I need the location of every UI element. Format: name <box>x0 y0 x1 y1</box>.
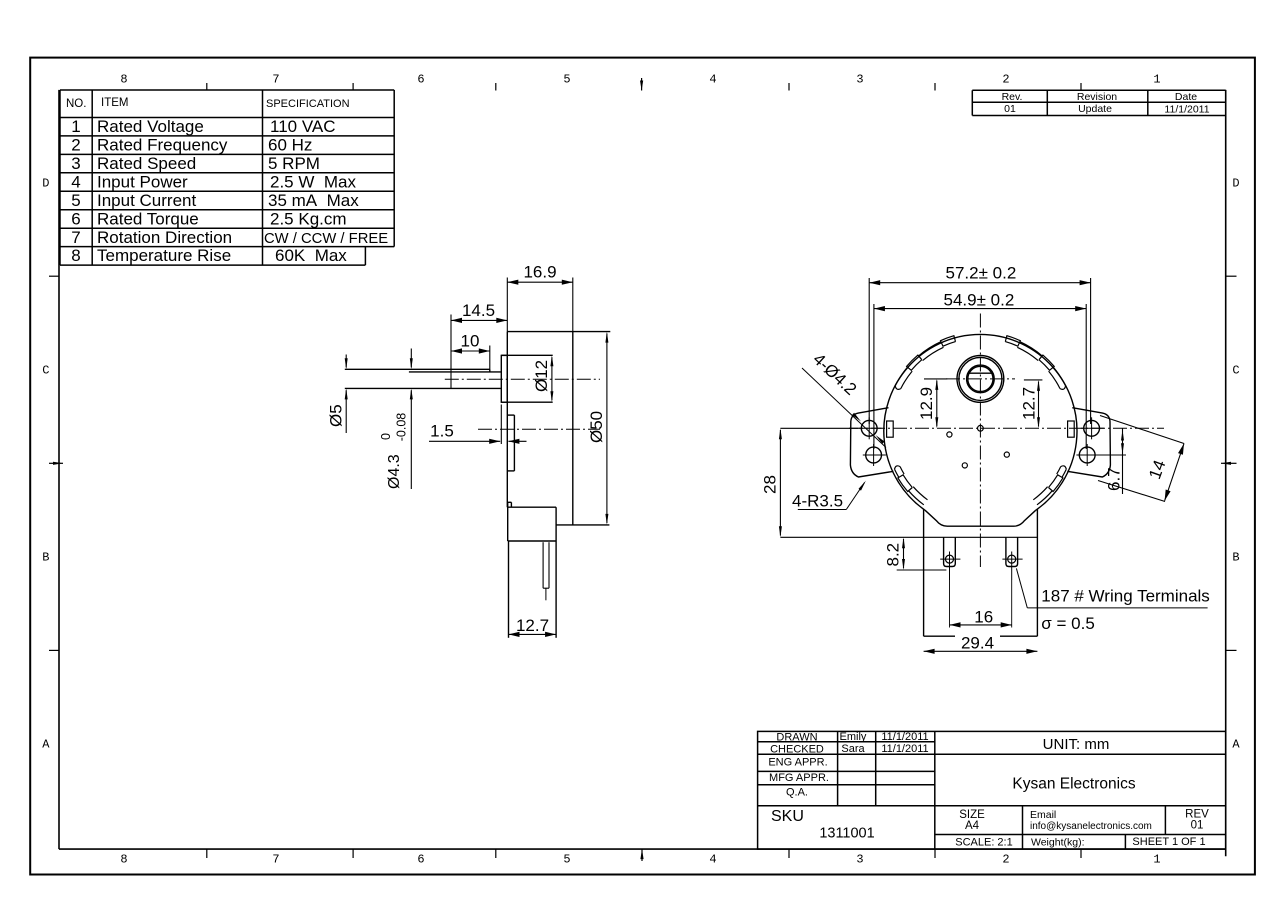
svg-text:Input Current: Input Current <box>97 191 196 210</box>
svg-text:Ø4.3: Ø4.3 <box>386 454 403 489</box>
svg-text:4-Ø4.2: 4-Ø4.2 <box>809 350 860 399</box>
svg-text:NO.: NO. <box>66 98 86 110</box>
svg-text:Revision: Revision <box>1077 91 1117 103</box>
svg-text:Rated Speed: Rated Speed <box>97 154 196 173</box>
svg-text:DRAWN: DRAWN <box>776 732 817 744</box>
svg-text:1: 1 <box>1153 853 1160 867</box>
svg-text:Emily: Emily <box>840 731 867 743</box>
svg-text:ITEM: ITEM <box>101 97 128 109</box>
svg-text:MFG APPR.: MFG APPR. <box>769 772 829 784</box>
svg-text:Rated Torque: Rated Torque <box>97 209 199 228</box>
svg-text:12.7: 12.7 <box>516 616 549 635</box>
svg-text:187 # Wring Terminals: 187 # Wring Terminals <box>1041 587 1210 606</box>
svg-text:Sara: Sara <box>841 743 865 755</box>
svg-text:4: 4 <box>709 73 716 87</box>
svg-text:11/1/2011: 11/1/2011 <box>881 743 928 755</box>
svg-text:7: 7 <box>71 228 80 247</box>
svg-text:1: 1 <box>1153 73 1160 87</box>
svg-text:14: 14 <box>1145 457 1169 481</box>
svg-text:14.5: 14.5 <box>462 301 495 320</box>
svg-text:110 VAC: 110 VAC <box>270 117 336 136</box>
svg-text:Update: Update <box>1078 103 1112 115</box>
svg-text:3: 3 <box>856 853 863 867</box>
svg-text:01: 01 <box>1191 820 1204 832</box>
svg-text:Rated Voltage: Rated Voltage <box>97 117 204 136</box>
svg-text:3: 3 <box>856 73 863 87</box>
svg-text:6: 6 <box>71 209 80 228</box>
svg-text:60 Hz: 60 Hz <box>268 136 312 155</box>
svg-text:11/1/2011: 11/1/2011 <box>881 731 928 743</box>
svg-text:8.2: 8.2 <box>884 543 903 567</box>
svg-text:Kysan Electronics: Kysan Electronics <box>1012 776 1135 793</box>
svg-text:28: 28 <box>761 475 780 494</box>
svg-text:4: 4 <box>71 172 80 191</box>
svg-text:UNIT: mm: UNIT: mm <box>1043 736 1110 753</box>
svg-text:1.5: 1.5 <box>430 422 454 441</box>
svg-text:54.9± 0.2: 54.9± 0.2 <box>944 290 1015 309</box>
svg-text:Input Power: Input Power <box>97 172 188 191</box>
svg-text:57.2± 0.2: 57.2± 0.2 <box>946 263 1017 282</box>
svg-text:5: 5 <box>71 191 80 210</box>
svg-text:60K Max: 60K Max <box>275 246 347 265</box>
svg-text:3: 3 <box>71 154 80 173</box>
svg-text:2: 2 <box>1002 853 1009 867</box>
svg-text:16: 16 <box>974 607 993 626</box>
svg-text:1: 1 <box>71 117 80 136</box>
svg-text:A4: A4 <box>965 820 980 832</box>
svg-text:σ = 0.5: σ = 0.5 <box>1041 614 1095 633</box>
svg-text:SKU: SKU <box>771 808 804 825</box>
svg-text:2: 2 <box>1002 73 1009 87</box>
svg-text:SPECIFICATION: SPECIFICATION <box>266 98 350 110</box>
svg-text:11/1/2011: 11/1/2011 <box>1164 104 1209 116</box>
svg-text:A: A <box>42 738 50 752</box>
svg-text:Ø50: Ø50 <box>587 411 606 443</box>
svg-text:12.7: 12.7 <box>1020 387 1039 420</box>
svg-text:5 RPM: 5 RPM <box>268 154 320 173</box>
svg-text:1311001: 1311001 <box>819 826 874 842</box>
svg-text:D: D <box>42 177 49 191</box>
svg-text:CHECKED: CHECKED <box>770 744 824 756</box>
svg-text:C: C <box>1232 364 1239 378</box>
svg-text:2: 2 <box>71 136 80 155</box>
svg-text:29.4: 29.4 <box>961 634 994 653</box>
svg-text:8: 8 <box>120 73 127 87</box>
svg-text:SHEET 1 OF 1: SHEET 1 OF 1 <box>1132 836 1205 848</box>
svg-text:6: 6 <box>417 73 424 87</box>
svg-text:6: 6 <box>417 853 424 867</box>
svg-text:SCALE: 2:1: SCALE: 2:1 <box>955 837 1012 849</box>
svg-text:C: C <box>42 364 49 378</box>
svg-text:Rated Frequency: Rated Frequency <box>97 136 228 155</box>
svg-text:Email: Email <box>1030 809 1056 821</box>
svg-text:01: 01 <box>1004 103 1016 115</box>
svg-text:Date: Date <box>1175 91 1197 103</box>
svg-text:16.9: 16.9 <box>523 263 556 282</box>
svg-text:2.5 W Max: 2.5 W Max <box>270 172 356 191</box>
svg-text:5: 5 <box>563 73 570 87</box>
svg-text:0: 0 <box>379 433 393 440</box>
svg-text:Rotation Direction: Rotation Direction <box>97 228 232 247</box>
svg-text:B: B <box>1232 551 1239 565</box>
svg-text:B: B <box>42 551 49 565</box>
svg-text:CW / CCW / FREE: CW / CCW / FREE <box>264 231 388 247</box>
svg-text:Weight(kg):: Weight(kg): <box>1031 837 1085 849</box>
svg-text:Rev.: Rev. <box>1002 91 1023 103</box>
svg-text:A: A <box>1232 738 1240 752</box>
svg-text:5: 5 <box>563 853 570 867</box>
svg-text:12.9: 12.9 <box>917 387 936 420</box>
svg-text:10: 10 <box>461 332 480 351</box>
svg-text:7: 7 <box>272 853 279 867</box>
svg-text:D: D <box>1232 177 1239 191</box>
svg-text:8: 8 <box>120 853 127 867</box>
svg-text:Q.A.: Q.A. <box>786 787 808 799</box>
svg-text:8: 8 <box>71 246 80 265</box>
svg-text:info@kysanelectronics.com: info@kysanelectronics.com <box>1030 821 1152 832</box>
svg-text:ENG APPR.: ENG APPR. <box>768 757 827 769</box>
svg-text:4: 4 <box>709 853 716 867</box>
svg-text:7: 7 <box>272 73 279 87</box>
svg-text:Ø5: Ø5 <box>327 404 346 427</box>
svg-text:4-R3.5: 4-R3.5 <box>792 492 843 511</box>
svg-text:Ø12: Ø12 <box>532 360 551 392</box>
svg-text:2.5 Kg.cm: 2.5 Kg.cm <box>270 209 347 228</box>
svg-text:35 mA Max: 35 mA Max <box>268 191 359 210</box>
svg-text:-0.08: -0.08 <box>395 413 409 442</box>
svg-text:Temperature Rise: Temperature Rise <box>97 246 231 265</box>
